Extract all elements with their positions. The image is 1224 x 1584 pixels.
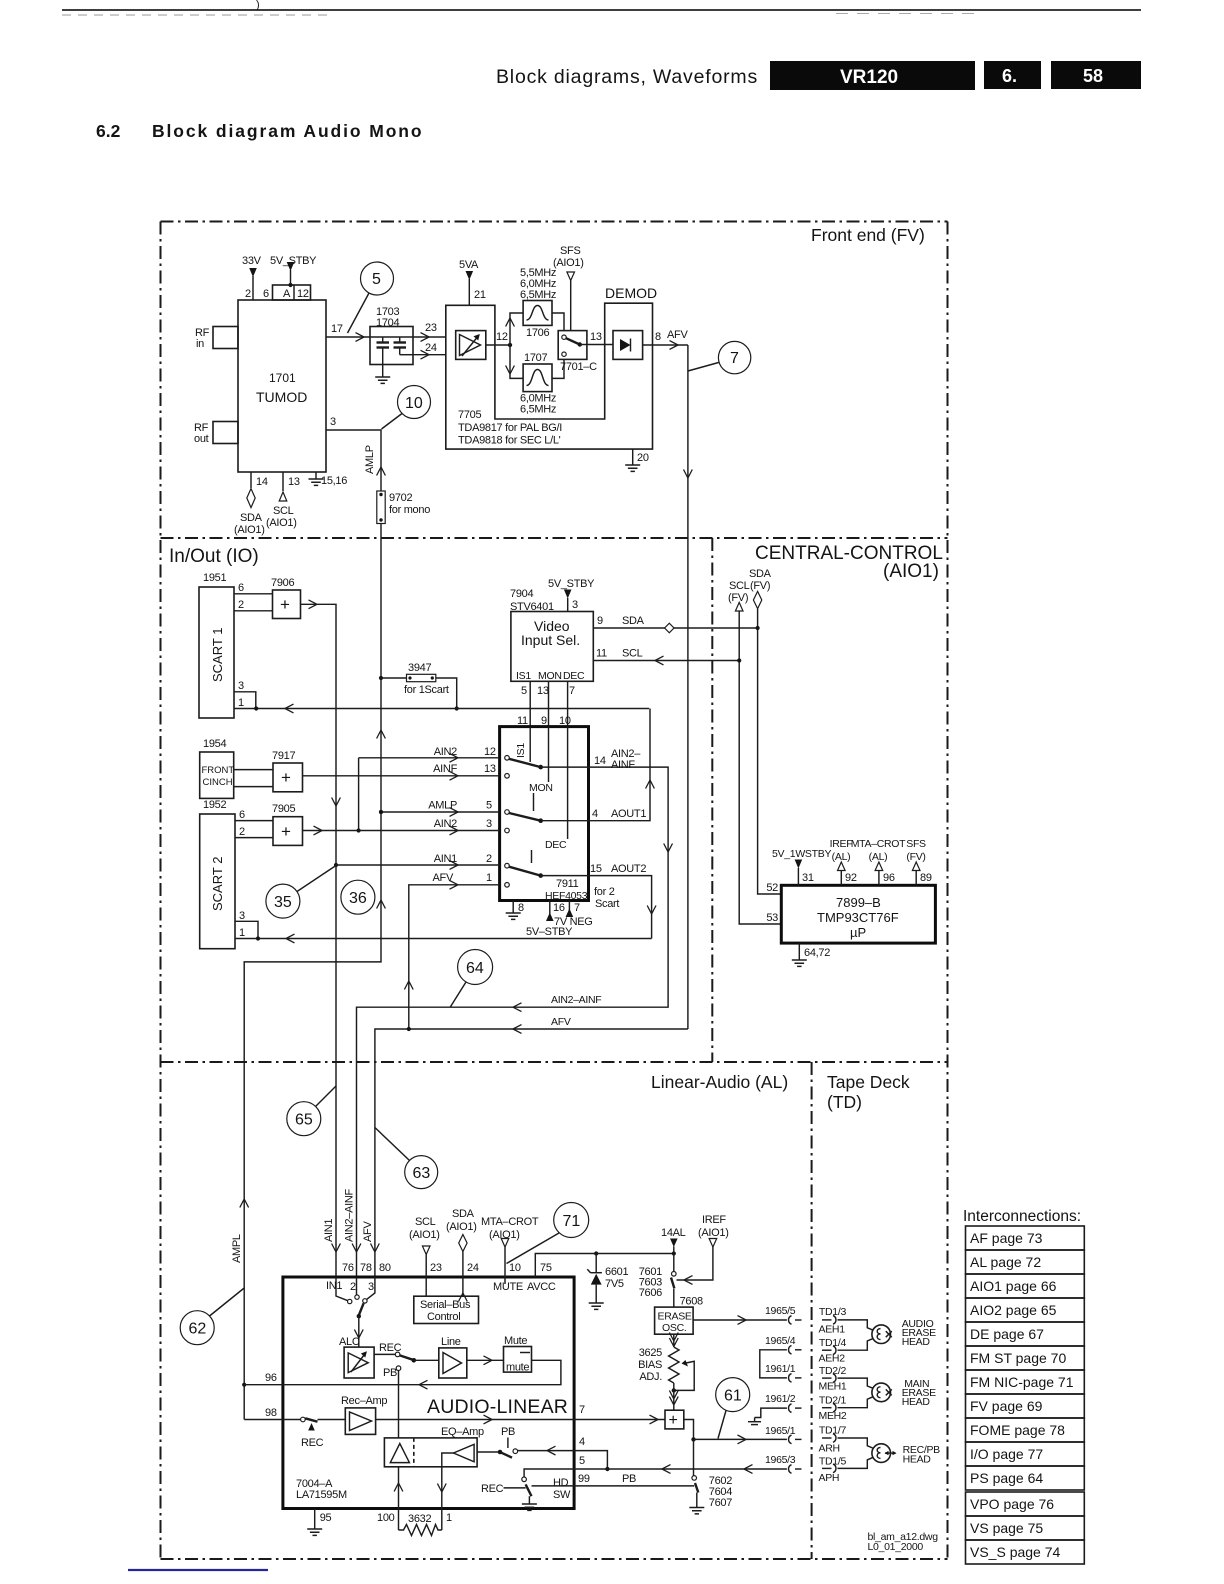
svg-text:10: 10 <box>509 1262 521 1274</box>
analog switch 7911 HEF4053 <box>500 727 589 902</box>
svg-text:AIO2 page 65: AIO2 page 65 <box>970 1302 1057 1318</box>
svg-text:SCART 1: SCART 1 <box>210 628 225 682</box>
summing amp 7906 <box>271 577 301 619</box>
svg-text:9: 9 <box>597 615 603 627</box>
svg-text:BIAS: BIAS <box>638 1359 662 1371</box>
svg-text:MEH1: MEH1 <box>819 1381 847 1393</box>
page top rule <box>62 0 1141 15</box>
switch HD SW <box>481 1477 571 1510</box>
connector pair 1961/1 - TD2/2 <box>789 1365 847 1393</box>
wire pin 24 <box>413 342 446 359</box>
wire pin 99 PB line <box>532 1473 695 1486</box>
svg-text:3: 3 <box>330 416 336 428</box>
svg-text:1954: 1954 <box>203 738 226 750</box>
svg-text:13: 13 <box>484 763 496 775</box>
svg-text:AIN2: AIN2 <box>434 818 457 830</box>
svg-text:APH: APH <box>819 1472 840 1484</box>
svg-text:5V_STBY: 5V_STBY <box>548 578 595 590</box>
svg-text:(FV): (FV) <box>750 580 770 592</box>
svg-text:52: 52 <box>766 882 778 894</box>
svg-text:3: 3 <box>572 599 578 611</box>
svg-text:(AL): (AL) <box>832 851 851 863</box>
svg-text:TD1/4: TD1/4 <box>819 1337 847 1349</box>
svg-text:95: 95 <box>320 1512 332 1524</box>
resistor 3632 <box>399 1513 442 1536</box>
svg-text:Scart: Scart <box>595 898 619 910</box>
wire pin 7 output to adder <box>376 1404 665 1424</box>
svg-text:5: 5 <box>372 271 381 288</box>
svg-text:AOUT2: AOUT2 <box>611 863 646 875</box>
svg-text:IN1: IN1 <box>326 1280 342 1292</box>
svg-text:23: 23 <box>430 1262 442 1274</box>
callout circle 71 <box>507 1203 589 1264</box>
svg-text:2: 2 <box>350 1281 356 1293</box>
callout circle 7 <box>688 341 751 373</box>
svg-text:(FV): (FV) <box>728 592 748 604</box>
svg-text:13: 13 <box>537 685 549 697</box>
svg-text:13: 13 <box>590 331 602 343</box>
svg-text:1: 1 <box>446 1512 452 1524</box>
svg-text:for 2: for 2 <box>594 886 615 898</box>
svg-text:4: 4 <box>592 808 598 820</box>
svg-text:12: 12 <box>297 288 309 300</box>
svg-text:7705: 7705 <box>458 409 481 421</box>
svg-text:6.2: 6.2 <box>96 121 121 141</box>
HEF4053 pin 7 7V NEG <box>554 901 593 929</box>
svg-text:7606: 7606 <box>639 1287 662 1299</box>
svg-text:96: 96 <box>265 1372 277 1384</box>
svg-text:7: 7 <box>574 902 580 914</box>
svg-text:1952: 1952 <box>203 799 226 811</box>
wire pin 23 <box>413 322 446 341</box>
svg-text:15: 15 <box>590 863 602 875</box>
audio processor 7004-A LA71595M outline <box>283 1277 574 1509</box>
svg-text:TD2/1: TD2/1 <box>819 1395 847 1407</box>
svg-text:TD1/5: TD1/5 <box>819 1456 847 1468</box>
svg-text:Block diagram Audio Mono: Block diagram Audio Mono <box>152 121 424 141</box>
svg-text:HEAD: HEAD <box>903 1454 932 1466</box>
svg-text:DEMOD: DEMOD <box>605 285 657 301</box>
svg-text:(AIO1): (AIO1) <box>234 524 265 536</box>
drawing id text <box>868 1531 939 1553</box>
switch 7602/7604/7607 <box>689 1439 732 1514</box>
svg-text:ADJ.: ADJ. <box>639 1371 662 1383</box>
svg-text:17: 17 <box>331 323 343 335</box>
svg-text:In/Out (IO): In/Out (IO) <box>169 546 259 567</box>
svg-text:VPO page 76: VPO page 76 <box>970 1496 1054 1512</box>
svg-text:IS1: IS1 <box>516 670 531 682</box>
svg-text:REC: REC <box>379 1342 402 1354</box>
wire AIN2 to pin 3 <box>359 818 500 835</box>
HEF4053 pin 16 5V-STBY <box>526 901 573 939</box>
input selector switch IN1 <box>336 1277 375 1347</box>
svg-text:36: 36 <box>349 890 367 907</box>
wire pin 15 AOUT2 <box>541 863 656 939</box>
svg-text:): ) <box>256 0 259 11</box>
demodulator diode <box>613 331 643 360</box>
svg-text:MUTE: MUTE <box>493 1281 523 1293</box>
divider FV / IO+CC <box>161 537 948 539</box>
wire node to filter 1707 <box>506 345 523 378</box>
svg-text:7911: 7911 <box>556 878 579 890</box>
node SCL(FV) <box>728 580 781 924</box>
svg-text:PS page 64: PS page 64 <box>970 1470 1043 1486</box>
svg-text:TMP93CT76F: TMP93CT76F <box>817 910 899 925</box>
svg-text:64: 64 <box>466 960 484 977</box>
wire PB bus from PB contact to EQ-Amp <box>398 1371 400 1438</box>
svg-text:SW: SW <box>553 1489 571 1501</box>
svg-text:MON: MON <box>529 782 553 794</box>
svg-text:L0_01_2000: L0_01_2000 <box>868 1541 924 1553</box>
svg-text:2: 2 <box>238 599 244 611</box>
switch 7701-C <box>558 331 597 373</box>
wire SCART1 pin 2 <box>234 599 273 611</box>
svg-text:AMLP: AMLP <box>428 800 457 812</box>
wire pin 12 to filter node <box>486 331 512 347</box>
svg-text:1704: 1704 <box>376 317 399 329</box>
svg-text:MON: MON <box>538 670 562 682</box>
svg-text:20: 20 <box>637 452 649 464</box>
svg-text:Block diagrams, Waveforms: Block diagrams, Waveforms <box>496 66 758 88</box>
svg-text:53: 53 <box>766 912 778 924</box>
wire 1965/4 to 1961/1 bracket <box>760 1335 796 1378</box>
svg-text:AINF: AINF <box>433 763 457 775</box>
svg-text:80: 80 <box>379 1262 391 1274</box>
svg-text:FM ST page 70: FM ST page 70 <box>970 1350 1066 1366</box>
svg-text:3632: 3632 <box>408 1513 431 1525</box>
svg-text:1: 1 <box>239 927 245 939</box>
svg-text:MEH2: MEH2 <box>819 1410 847 1422</box>
svg-text:TUMOD: TUMOD <box>256 389 307 405</box>
filter 1707 <box>520 352 556 416</box>
wire AMLP vertical into IO <box>380 524 382 679</box>
5V_STBY supply pin A <box>270 255 317 287</box>
svg-text:AIO1 page 66: AIO1 page 66 <box>970 1278 1057 1294</box>
svg-text:PB: PB <box>501 1426 515 1438</box>
ALC amplifier <box>339 1336 374 1378</box>
svg-text:Control: Control <box>427 1311 460 1323</box>
svg-text:in: in <box>196 338 204 350</box>
connector pair 1965/3 - TD1/5 <box>789 1456 847 1485</box>
TUMOD pin 13 SCL (AIO1) <box>266 472 300 529</box>
EQ-Amp block <box>384 1426 484 1467</box>
wire AFV horizontal to audio section <box>375 1016 688 1277</box>
wire SCL from video sel pin 11 <box>593 648 739 665</box>
svg-text:Line: Line <box>441 1336 461 1348</box>
wire erase osc to 1965/5 <box>693 1305 796 1324</box>
svg-text:(AIO1): (AIO1) <box>266 517 297 529</box>
svg-text:3: 3 <box>486 818 492 830</box>
svg-text:+: + <box>281 822 291 841</box>
SFS (AIO1) control input <box>553 245 584 331</box>
main erase head <box>872 1378 936 1408</box>
svg-text:78: 78 <box>360 1262 372 1274</box>
wire pin 14 AIN2-AINF output <box>357 748 673 1277</box>
svg-text:Tape Deck: Tape Deck <box>827 1072 910 1092</box>
svg-text:Input Sel.: Input Sel. <box>521 632 580 648</box>
wire AIN1 drop with arrow <box>323 1219 340 1252</box>
connector pair 1965/4 - TD1/4 <box>789 1337 847 1365</box>
Serial-Bus Control block <box>414 1296 479 1323</box>
rec/pb head <box>872 1444 940 1466</box>
svg-text:TD1/3: TD1/3 <box>819 1306 847 1318</box>
svg-text:3: 3 <box>368 1281 374 1293</box>
TUMOD top pin strip 6/A/12 <box>263 285 311 300</box>
svg-text:5VA: 5VA <box>459 259 479 271</box>
wire 1961/2 to ground <box>748 1393 796 1425</box>
svg-text:6: 6 <box>239 809 245 821</box>
svg-text:7V NEG: 7V NEG <box>554 916 593 928</box>
svg-text:VS_S page 74: VS_S page 74 <box>970 1544 1061 1560</box>
svg-text:7905: 7905 <box>272 803 295 815</box>
svg-text:AFV: AFV <box>362 1221 374 1242</box>
svg-text:FM NIC-page 71: FM NIC-page 71 <box>970 1374 1074 1390</box>
header box 6. <box>984 61 1041 89</box>
svg-text:100: 100 <box>377 1512 395 1524</box>
svg-text:7701–C: 7701–C <box>560 361 597 373</box>
svg-text:VR120: VR120 <box>840 67 898 88</box>
svg-text:7: 7 <box>569 685 575 697</box>
svg-text:15,16: 15,16 <box>321 475 347 487</box>
svg-text:12: 12 <box>484 746 496 758</box>
outer border frame (dash-dot) <box>161 222 948 1560</box>
svg-text:3947: 3947 <box>408 662 431 674</box>
svg-text:71: 71 <box>563 1213 581 1230</box>
node SDA(FV) <box>749 568 781 894</box>
svg-text:16: 16 <box>553 902 565 914</box>
svg-text:AVCC: AVCC <box>527 1281 556 1293</box>
uP pin 89 SFS (FV) <box>906 838 932 885</box>
svg-text:AFV: AFV <box>551 1016 571 1028</box>
svg-text:33V: 33V <box>242 255 262 267</box>
svg-text:6: 6 <box>238 582 244 594</box>
svg-text:TD2/2: TD2/2 <box>819 1365 847 1377</box>
svg-text:1: 1 <box>238 697 244 709</box>
svg-text:99: 99 <box>578 1473 590 1485</box>
wire AMLP lower run to AMPL <box>244 678 385 1062</box>
svg-text:AMPL: AMPL <box>231 1234 243 1263</box>
svg-text:14: 14 <box>594 755 606 767</box>
svg-text:5V_STBY: 5V_STBY <box>270 255 317 267</box>
svg-text:13: 13 <box>288 476 300 488</box>
svg-text:Linear-Audio (AL): Linear-Audio (AL) <box>651 1072 788 1092</box>
svg-text:24: 24 <box>425 342 437 354</box>
svg-text:8: 8 <box>655 331 661 343</box>
switch section DEC <box>505 727 568 888</box>
svg-text:AIN2–AINF: AIN2–AINF <box>344 1188 356 1242</box>
svg-text:AUDIO-LINEAR: AUDIO-LINEAR <box>427 1396 568 1418</box>
svg-text:HD: HD <box>553 1477 569 1489</box>
svg-text:AIN2: AIN2 <box>434 746 457 758</box>
svg-text:12: 12 <box>496 331 508 343</box>
svg-text:7V5: 7V5 <box>605 1278 624 1290</box>
callout circle 10 <box>382 386 431 430</box>
connector pair 1961/2 - TD2/1 <box>789 1395 847 1423</box>
svg-text:SDA: SDA <box>240 512 263 524</box>
svg-text:I/O page 77: I/O page 77 <box>970 1446 1043 1462</box>
zener diode 6601 7V5 <box>587 1254 628 1310</box>
svg-text:7899–B: 7899–B <box>836 895 881 910</box>
svg-text:65: 65 <box>295 1112 313 1129</box>
header box 58 <box>1051 61 1141 89</box>
svg-text:62: 62 <box>189 1321 207 1338</box>
wire SDA from video sel pin 9 <box>593 615 757 633</box>
connector pair 1965/5 - TD1/3 <box>789 1306 847 1336</box>
pin labels 76 78 80 <box>326 1262 391 1293</box>
TUMOD pin 14 SDA (AIO1) <box>234 472 268 536</box>
wire AIN1 rail into audio section <box>335 865 337 1277</box>
wire 7906 output to AIN1 rail <box>301 600 341 865</box>
svg-text:AEH1: AEH1 <box>819 1324 846 1336</box>
svg-text:AEH2: AEH2 <box>819 1353 846 1365</box>
svg-text:AINF: AINF <box>611 759 635 771</box>
svg-text:+: + <box>280 595 290 614</box>
5VA supply pin 21 <box>459 259 486 305</box>
svg-text:FRONT: FRONT <box>202 765 235 776</box>
svg-text:SCART 2: SCART 2 <box>210 857 225 911</box>
svg-text:35: 35 <box>274 894 292 911</box>
svg-text:SCL: SCL <box>273 505 294 517</box>
uP pin 92 IREF (AL) <box>830 838 857 885</box>
jumper 3947 for 1Scart <box>379 662 459 711</box>
svg-text:(AIO1): (AIO1) <box>446 1221 477 1233</box>
wire mute output to pin 96 <box>244 1360 561 1389</box>
svg-text:+: + <box>669 1412 678 1429</box>
pin 75 AVCC wire <box>527 1251 676 1293</box>
svg-text:(AIO1): (AIO1) <box>883 561 939 582</box>
bottom blue mark <box>128 1569 268 1571</box>
svg-text:SCL: SCL <box>622 648 643 660</box>
wire pin 4 <box>518 1436 610 1471</box>
wire TUMOD pin 3 AMLP <box>326 416 385 491</box>
svg-text:SCL: SCL <box>415 1216 436 1228</box>
wire AMLP to pin 5 <box>379 800 500 817</box>
uP pin 31 5V_1WSTBY <box>772 848 831 885</box>
svg-text:6601: 6601 <box>605 1266 628 1278</box>
wire AINF from 7917 to pin 13 <box>303 763 500 780</box>
svg-text:AIN1: AIN1 <box>323 1219 335 1242</box>
divider AL | TD <box>811 1062 813 1559</box>
wire SCART2 pin 3 stub <box>235 910 258 939</box>
5V_STBY to video sel pin 3 <box>548 578 595 612</box>
wire pin 13 switch to demod <box>587 331 613 345</box>
wire SCART1 pin 1 return line <box>234 697 649 713</box>
svg-text:FOME page 78: FOME page 78 <box>970 1422 1065 1438</box>
svg-text:ERASE: ERASE <box>658 1311 692 1323</box>
switch section MON <box>505 727 553 833</box>
svg-text:5: 5 <box>579 1455 585 1467</box>
svg-text:96: 96 <box>883 872 895 884</box>
svg-text:21: 21 <box>474 289 486 301</box>
svg-text:(TD): (TD) <box>827 1092 862 1112</box>
svg-text:SDA: SDA <box>452 1208 475 1220</box>
microprocessor 7899-B TMP93CT76F <box>766 882 935 943</box>
svg-text:6.: 6. <box>1002 66 1017 86</box>
RF in tab <box>195 327 238 351</box>
pin 100 wire <box>377 1467 403 1530</box>
svg-text:SFS: SFS <box>560 245 581 257</box>
uP pin 96 MTA-CROT (AL) <box>851 838 906 885</box>
bias pot 3625 BIAS ADJ <box>638 1333 694 1411</box>
svg-text:7904: 7904 <box>510 588 533 600</box>
svg-text:for 1Scart: for 1Scart <box>404 684 449 696</box>
wire SCART2 pin 2 <box>235 826 273 838</box>
svg-text:AF page 73: AF page 73 <box>970 1230 1043 1246</box>
svg-text:6,5MHz: 6,5MHz <box>520 289 556 301</box>
wires TD1/3 TD1/4 to audio erase head <box>838 1320 873 1350</box>
svg-text:1: 1 <box>486 872 492 884</box>
callout circle 61 <box>716 1378 750 1439</box>
filter 1706 <box>520 267 556 339</box>
svg-text:AFV: AFV <box>433 872 454 884</box>
tuner/modulator 1701 TUMOD <box>238 300 326 472</box>
svg-text:2: 2 <box>486 853 492 865</box>
svg-text:Rec–Amp: Rec–Amp <box>341 1395 387 1407</box>
Mute stage <box>467 1335 532 1374</box>
Line amplifier <box>414 1336 467 1378</box>
svg-text:HEF4053: HEF4053 <box>545 890 588 902</box>
wire AFV vertical to IO <box>684 345 693 1029</box>
svg-text:4: 4 <box>579 1436 585 1448</box>
wires TD1/7 TD1/5 to rec/pb head <box>838 1438 873 1468</box>
svg-text:63: 63 <box>413 1165 431 1182</box>
FRONT CINCH connector 1954 <box>200 738 235 798</box>
svg-text:DEC: DEC <box>563 670 585 682</box>
svg-text:7917: 7917 <box>272 750 295 762</box>
svg-text:9702: 9702 <box>389 492 412 504</box>
svg-text:AOUT1: AOUT1 <box>611 808 646 820</box>
interconnections table <box>963 1208 1084 1564</box>
svg-text:(AIO1): (AIO1) <box>409 1229 440 1241</box>
callout circle 65 <box>287 1086 336 1136</box>
wires video sel pins 5/13/7 to switch 11/9/10 <box>517 681 575 727</box>
svg-text:Interconnections:: Interconnections: <box>963 1208 1081 1225</box>
variable gain amp inside 7705 <box>456 331 486 360</box>
svg-text:PB: PB <box>383 1367 397 1379</box>
14AL supply <box>661 1227 686 1254</box>
summing amp 7905 <box>272 803 303 845</box>
svg-text:75: 75 <box>540 1262 552 1274</box>
svg-text:AFV: AFV <box>667 329 688 341</box>
svg-text:REC: REC <box>301 1437 324 1449</box>
svg-text:STV6401: STV6401 <box>510 601 554 613</box>
audio erase head <box>872 1318 936 1348</box>
wire AFV drop with arrow <box>362 1221 379 1252</box>
Rec-Amp amplifier <box>341 1395 387 1434</box>
divider IO | CENTRAL-CONTROL <box>711 538 713 1062</box>
svg-text:6: 6 <box>263 288 269 300</box>
svg-text:23: 23 <box>425 322 437 334</box>
callout circle 35 <box>266 866 336 919</box>
svg-text:FV page 69: FV page 69 <box>970 1398 1043 1414</box>
svg-text:14AL: 14AL <box>661 1227 686 1239</box>
svg-text:REC: REC <box>481 1483 504 1495</box>
SCL (AIO1) input pin 23 <box>409 1216 442 1296</box>
uP pins 64,72 ground <box>792 943 830 966</box>
video input selector 7904 STV6401 <box>510 588 593 682</box>
svg-text:5: 5 <box>521 685 527 697</box>
pin 20 ground <box>625 449 649 471</box>
SCART 1 connector 1951 <box>199 572 234 718</box>
svg-text:µP: µP <box>850 925 866 940</box>
wire 7905 output to AIN2 rail <box>303 758 361 835</box>
wire SCART2 pin 1 return <box>235 927 652 943</box>
svg-text:92: 92 <box>845 872 857 884</box>
svg-text:58: 58 <box>1083 66 1103 86</box>
svg-text:1951: 1951 <box>203 572 226 584</box>
svg-text:out: out <box>194 433 209 445</box>
svg-text:1701: 1701 <box>269 371 296 385</box>
